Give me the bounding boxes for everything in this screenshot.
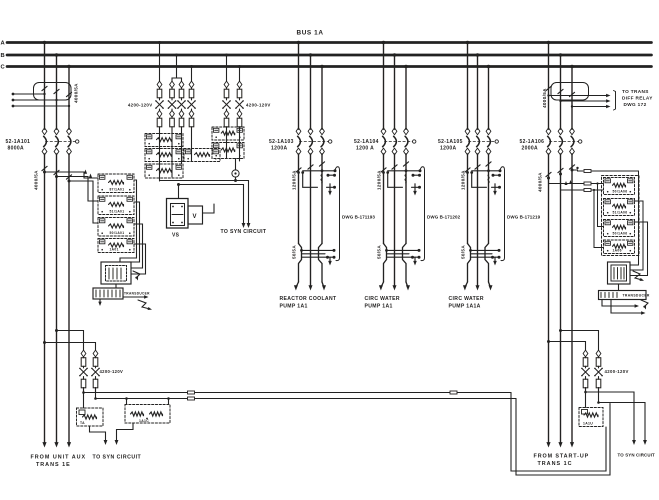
bus B	[7, 54, 652, 57]
lower CT crossing 52-1A105	[468, 244, 471, 283]
station PT right column 2	[596, 350, 601, 357]
svg-text:4200-120V: 4200-120V	[605, 369, 629, 374]
CT bracket on feeder F4	[551, 83, 589, 101]
relay box F4 outline	[602, 176, 640, 256]
PT bank1 feed from bus B	[172, 55, 177, 82]
tap from F4 phase A	[547, 340, 550, 343]
feeder 52-1A103 wires below breaker	[298, 154, 300, 244]
breaker 52-1A103	[296, 128, 301, 135]
breaker 52-1A101	[42, 128, 47, 135]
CT leads to trans diff relay	[549, 95, 609, 97]
relay feed wires rows 3-4	[598, 184, 604, 227]
CT polarity mark 52-1A105	[492, 186, 500, 188]
feeder 52-1A103 phase wires from buses	[298, 43, 300, 130]
feeder F0 phase wires from buses	[44, 43, 46, 130]
PT bank2 secondary stems	[226, 130, 228, 159]
svg-text:TRANS 1C: TRANS 1C	[538, 461, 573, 467]
relay 50/51 1A06 b	[604, 199, 635, 216]
svg-text:TO SYN CIRCUIT: TO SYN CIRCUIT	[618, 453, 656, 458]
svg-text:1200/5A: 1200/5A	[461, 170, 466, 190]
svg-text:1A1U: 1A1U	[583, 422, 593, 426]
wire to voltmeter switch	[178, 185, 180, 199]
CT secondary wiring 52-1A103	[297, 171, 300, 174]
voltmeter switch VS	[167, 199, 189, 229]
relay 50/51 1A06 a	[604, 178, 635, 195]
svg-text:52-1A101: 52-1A101	[6, 139, 31, 145]
svg-text:50/5A: 50/5A	[292, 245, 297, 259]
svg-text:1A1C: 1A1C	[139, 419, 149, 423]
PT bank1 secondary stems	[159, 130, 161, 182]
drawout squiggle 52-1A105	[488, 175, 489, 183]
svg-text:4000/5A: 4000/5A	[74, 83, 79, 103]
CT bracket on feeder F0	[34, 83, 72, 101]
station PT left column 2	[93, 350, 98, 357]
svg-text:4000/5A: 4000/5A	[538, 172, 543, 192]
svg-text:VS: VS	[172, 233, 180, 239]
breaker 52-1A105	[465, 128, 470, 135]
relay box right side wires	[630, 201, 643, 270]
feeder 52-1A105 phase wires from buses	[467, 43, 469, 130]
potential transformer PT2 column 1	[179, 81, 184, 88]
voltmeter V	[188, 206, 203, 224]
svg-text:52-1A103: 52-1A103	[269, 139, 294, 145]
svg-text:4200-120V: 4200-120V	[246, 103, 271, 108]
PT left secondary wires	[83, 388, 85, 409]
potential transformer PT1 column 2	[170, 81, 175, 88]
station PT left column 1	[81, 350, 86, 357]
svg-text:TA: TA	[80, 421, 85, 425]
relay 50/51 1A06 c	[604, 220, 635, 237]
relay interconnection wires	[120, 180, 137, 262]
svg-text:1200/5A: 1200/5A	[292, 170, 297, 190]
svg-text:52-1A105: 52-1A105	[438, 139, 463, 145]
svg-text:CIRC WATER: CIRC WATER	[365, 296, 400, 302]
svg-text:4200-120V: 4200-120V	[128, 103, 153, 108]
relay row VR2	[212, 143, 244, 159]
CT row on feeder F4	[547, 177, 550, 180]
syn bus wire lower	[96, 398, 517, 400]
relay bracket 52-1A105	[501, 167, 505, 261]
feeder F4 source arrows	[546, 442, 550, 447]
svg-text:C: C	[1, 65, 6, 71]
svg-text:51/1A01: 51/1A01	[110, 210, 125, 214]
svg-text:DWG B-171193: DWG B-171193	[342, 215, 375, 220]
meter lead arrow A	[133, 271, 140, 278]
svg-text:TRANS 1E: TRANS 1E	[36, 462, 71, 468]
svg-text:8000A: 8000A	[8, 145, 25, 151]
breaker 52-1A104	[381, 128, 386, 135]
svg-text:1A01: 1A01	[110, 248, 119, 252]
svg-text:50/1A06: 50/1A06	[613, 232, 628, 236]
CT secondary wiring 52-1A104	[382, 171, 385, 174]
wire to terminal strip	[115, 284, 117, 288]
PT bank2 feed from bus B	[226, 55, 228, 82]
syn bus wire upper	[84, 392, 512, 394]
svg-text:2000A: 2000A	[522, 145, 539, 151]
relay 51N/1A01	[98, 218, 134, 237]
svg-text:TRANSDUCER: TRANSDUCER	[124, 292, 150, 296]
relay 50/1A01	[98, 239, 134, 253]
relay box 2 stubs	[126, 399, 128, 405]
PT bank1 feed from bus C	[191, 67, 193, 82]
svg-text:4000/5A: 4000/5A	[542, 88, 547, 108]
svg-text:50/5A: 50/5A	[377, 245, 382, 259]
relay row VM2 extension	[184, 149, 220, 162]
CT secondary wire with test link	[576, 167, 578, 169]
relay bracket 52-1A104	[421, 167, 425, 261]
terminal strip F4 leads	[602, 300, 637, 307]
svg-text:1200 A: 1200 A	[356, 145, 374, 151]
relay row VM1	[145, 134, 183, 147]
syn leads right	[586, 392, 635, 442]
station PT right column 1	[583, 350, 588, 357]
svg-text:PUMP 1A1: PUMP 1A1	[280, 303, 308, 309]
feeder F0 wires below breaker	[44, 154, 46, 443]
tap from F4 phase B	[559, 329, 562, 332]
tap from F0 phase B	[55, 329, 58, 332]
CT polarity mark 52-1A104	[412, 186, 420, 188]
CT secondary wires into relay box F4	[549, 178, 584, 184]
PT right secondary wires	[585, 388, 587, 408]
svg-text:50/1A01: 50/1A01	[110, 231, 125, 235]
PT bank1 feed from bus A	[159, 43, 161, 82]
synchronizing relay box left	[77, 408, 104, 426]
svg-text:B: B	[1, 53, 6, 59]
feeder F0 source arrows	[42, 442, 46, 447]
CT secondary wires to relays	[45, 172, 99, 178]
svg-text:1200A: 1200A	[271, 145, 288, 151]
relay 51/1A01	[98, 196, 134, 215]
drawout squiggle 52-1A103	[321, 175, 322, 183]
svg-text:TO TRANS: TO TRANS	[622, 89, 649, 94]
svg-text:50/1A06: 50/1A06	[613, 190, 628, 194]
relay row VM2	[145, 149, 183, 162]
relay 87/1A01	[98, 174, 134, 193]
potential transformer PT3 column 1	[224, 81, 229, 88]
potential transformer PT1 column 1	[157, 81, 162, 88]
svg-text:PUMP 1A1: PUMP 1A1	[365, 303, 393, 309]
svg-text:DWG 172: DWG 172	[624, 102, 647, 107]
svg-text:TRANSDUCER: TRANSDUCER	[623, 293, 650, 297]
svg-text:DWG B-171219: DWG B-171219	[507, 215, 541, 220]
bus A	[7, 41, 652, 44]
CT marks on 52-1A105 feeder	[465, 168, 470, 172]
svg-text:BUS 1A: BUS 1A	[297, 30, 324, 37]
svg-text:FROM START-UP: FROM START-UP	[534, 454, 590, 460]
terminal strip lead A right	[123, 296, 146, 298]
CT marks on 52-1A103 feeder	[296, 168, 301, 172]
instrument arrow A lower	[641, 300, 648, 307]
meter dial	[235, 159, 237, 170]
relay bracket 52-1A103	[336, 167, 340, 261]
svg-text:DWG B-171202: DWG B-171202	[427, 215, 461, 220]
breaker 52-1A106	[546, 128, 551, 135]
lower CT crossing 52-1A104	[384, 244, 387, 283]
svg-text:A: A	[1, 41, 6, 47]
relay row VR1	[212, 127, 244, 140]
potential transformer PT3 column 2	[237, 81, 242, 88]
svg-text:4200-120V: 4200-120V	[100, 369, 124, 374]
svg-text:52-1A104: 52-1A104	[354, 139, 379, 145]
feeder 52-1A104 phase wires from buses	[383, 43, 385, 130]
bus C	[7, 65, 652, 68]
svg-text:50/5A: 50/5A	[461, 245, 466, 259]
svg-text:TO SYN CIRCUIT: TO SYN CIRCUIT	[93, 454, 142, 460]
voltmeter stub wire	[203, 204, 215, 213]
CT secondary wiring 52-1A105	[466, 171, 469, 174]
load arrows 52-1A103	[296, 282, 298, 287]
relay row VM3	[145, 164, 183, 178]
feeder F4 wires below breaker	[548, 154, 550, 443]
synchronizing relay box right	[579, 408, 603, 427]
terminal strip lead down	[99, 299, 101, 304]
svg-text:CIRC WATER: CIRC WATER	[449, 296, 484, 302]
svg-text:V: V	[193, 214, 197, 220]
CT row below breaker 52-1A101	[43, 171, 46, 174]
tap from F0 phase A	[43, 341, 46, 344]
relay 50/51 1A06 d	[604, 240, 635, 254]
bracket to diff relay	[614, 91, 616, 111]
svg-text:52-1A106: 52-1A106	[520, 139, 545, 145]
synchronizing relay box 2	[125, 405, 170, 424]
svg-text:FROM UNIT AUX: FROM UNIT AUX	[31, 455, 87, 461]
wire bank1 lower to syn drop	[179, 185, 244, 225]
svg-text:TO SYN CIRCUIT: TO SYN CIRCUIT	[221, 229, 267, 235]
transducer device box F4	[608, 262, 631, 284]
CT leads to metering dots	[13, 93, 45, 95]
lower CT crossing 52-1A103	[299, 244, 302, 283]
wire box to terminal strip F4	[618, 284, 620, 291]
CT polarity mark 52-1A103	[327, 186, 335, 188]
instrument arrow A	[633, 271, 642, 280]
svg-text:PUMP 1A1A: PUMP 1A1A	[449, 303, 481, 309]
syn leads down left	[90, 426, 106, 442]
load arrows 52-1A104	[381, 282, 383, 287]
svg-text:51/1A06: 51/1A06	[613, 211, 628, 215]
feeder 52-1A105 wires below breaker	[467, 154, 469, 244]
PT bank2 feed from bus C	[239, 67, 241, 82]
svg-text:1A06: 1A06	[613, 249, 622, 253]
svg-text:DIFF RELAY: DIFF RELAY	[622, 96, 653, 101]
potential transformer PT2 column 2	[189, 81, 194, 88]
svg-text:87/1A01: 87/1A01	[110, 188, 125, 192]
feeder F4 phase wires from buses	[548, 43, 550, 130]
svg-text:1200A: 1200A	[440, 145, 457, 151]
drawout squiggle 52-1A104	[405, 175, 406, 183]
terminal strip	[93, 288, 123, 299]
wire bank1 to syn drop	[160, 181, 249, 225]
load arrows 52-1A105	[465, 282, 467, 287]
CT marks on 52-1A104 feeder	[381, 168, 386, 172]
feeder 52-1A104 wires below breaker	[383, 154, 385, 244]
svg-text:1200/5A: 1200/5A	[377, 170, 382, 190]
svg-text:4000/5A: 4000/5A	[34, 170, 39, 190]
svg-text:REACTOR COOLANT: REACTOR COOLANT	[280, 296, 337, 302]
terminal strip F4	[599, 291, 647, 300]
auxiliary device box	[101, 262, 131, 284]
